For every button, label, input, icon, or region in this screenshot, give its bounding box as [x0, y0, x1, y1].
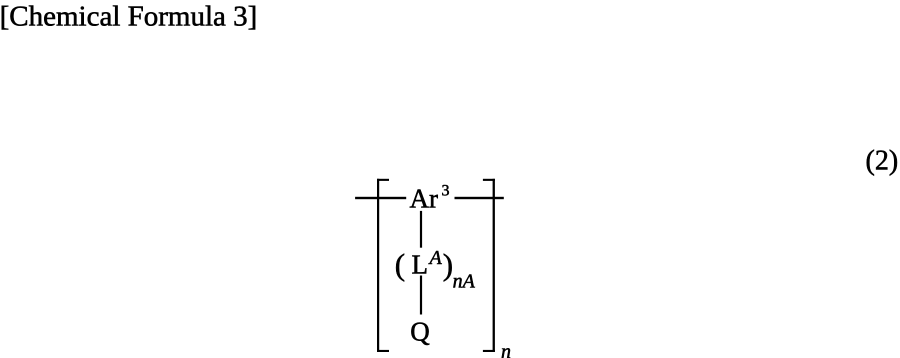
bond Ar to L vertical: [420, 211, 422, 248]
svg-text:n: n: [501, 341, 511, 358]
right bracket vertical: [493, 179, 495, 352]
svg-text:[Chemical Formula 3]: [Chemical Formula 3]: [0, 1, 257, 33]
right bracket top arm: [483, 179, 495, 181]
left bracket vertical: [377, 179, 379, 352]
bond left horizontal: [355, 197, 406, 199]
svg-text:nA: nA: [453, 270, 476, 292]
right bracket bottom arm: [483, 350, 495, 352]
svg-text:L: L: [412, 250, 429, 280]
bond L to Q vertical: [420, 276, 422, 315]
svg-text:): ): [443, 247, 453, 282]
left bracket bottom arm: [377, 350, 389, 352]
bond right horizontal: [455, 197, 504, 199]
left bracket top arm: [377, 179, 389, 181]
svg-text:(: (: [395, 247, 405, 282]
svg-text:3: 3: [442, 183, 450, 200]
svg-text:Q: Q: [410, 316, 430, 346]
svg-text:Ar: Ar: [410, 183, 439, 213]
svg-text:A: A: [428, 247, 443, 269]
svg-text:(2): (2): [866, 146, 899, 177]
